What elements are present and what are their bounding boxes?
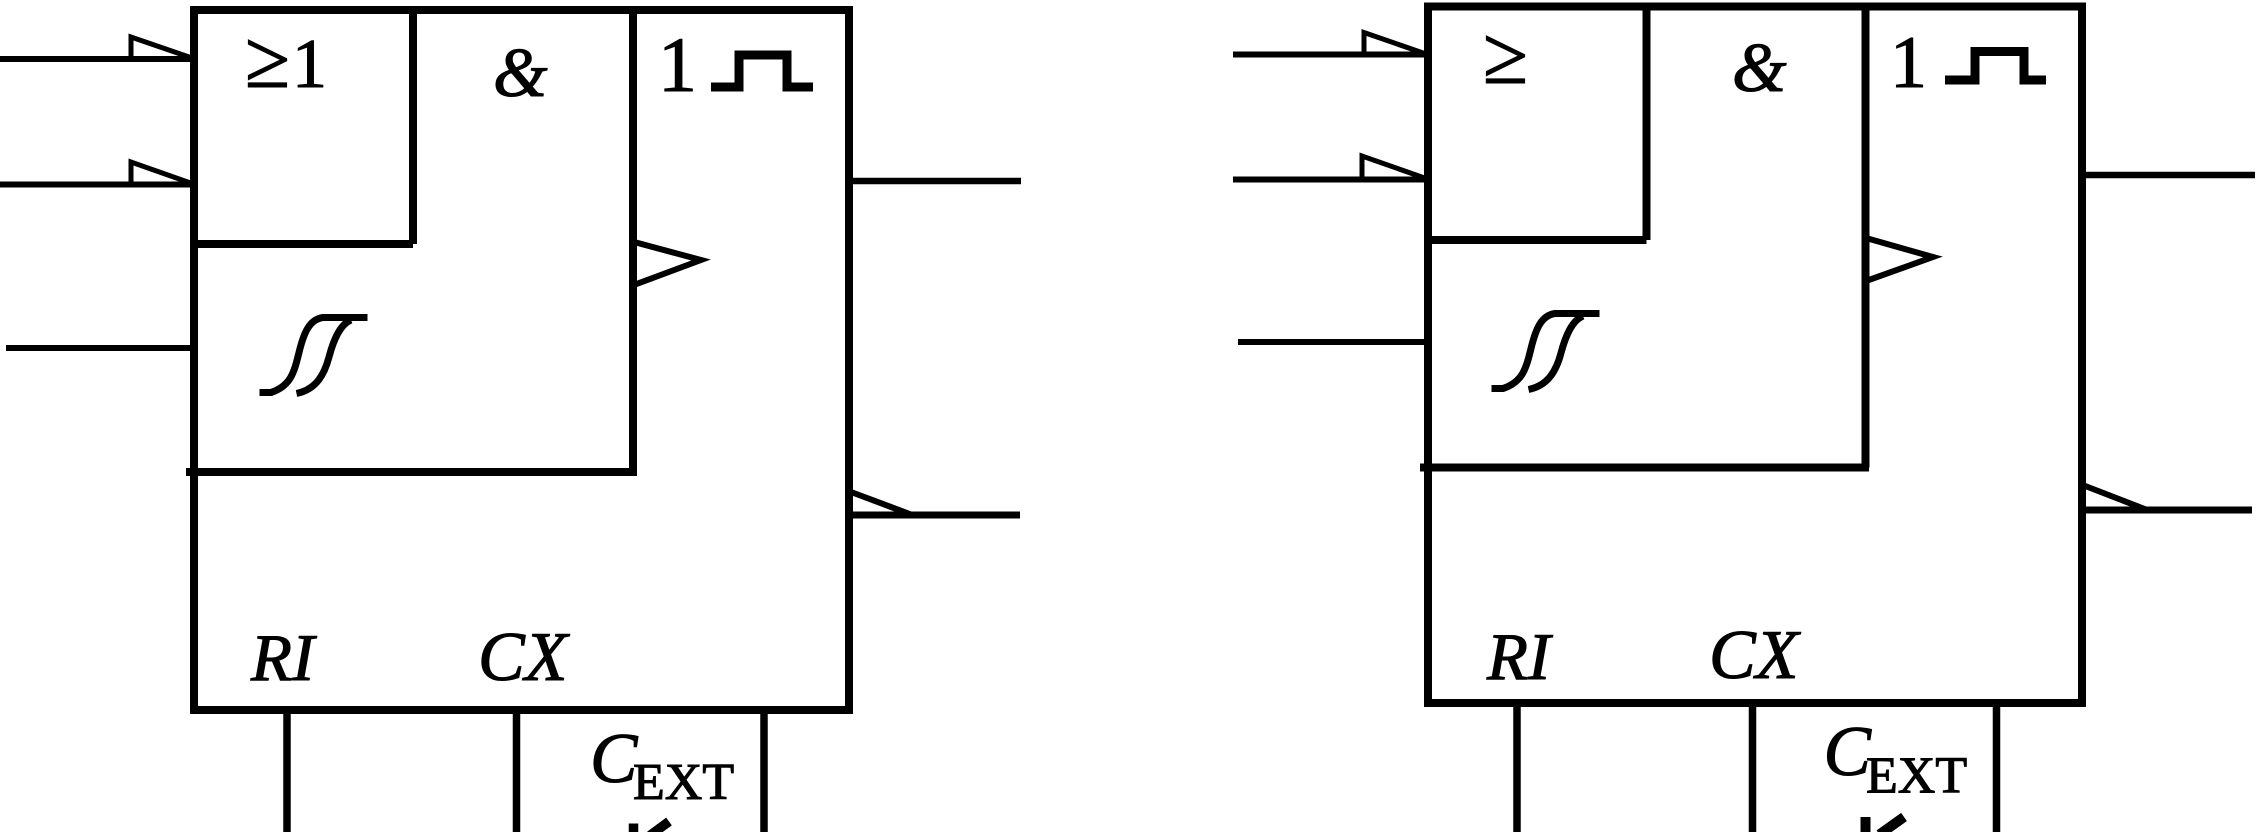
svg-text:1: 1 — [1890, 22, 1927, 104]
U1 output Q-bar polarity wedge — [851, 492, 911, 515]
U2 pin CEXT wire — [1993, 703, 2001, 832]
U1 pin RI wire — [283, 710, 291, 832]
svg-text:RI: RI — [1486, 620, 1553, 694]
svg-text:1: 1 — [658, 21, 697, 108]
svg-text:RI: RI — [250, 621, 317, 695]
U1 capacitor label K (clipped) — [634, 822, 670, 832]
U2 OR-section inner box — [1428, 7, 1647, 241]
U1 mid horizontal separator — [186, 468, 637, 476]
U2 edge-trigger chevron — [1866, 238, 1933, 281]
U1 pin CEXT wire — [760, 710, 768, 832]
U1 input A2 polarity wedge — [131, 162, 192, 184]
U1 input A1 polarity wedge — [131, 37, 192, 59]
svg-text:≥: ≥ — [245, 14, 290, 105]
U1 AND/mono section divider — [629, 10, 637, 472]
U1 OR-section inner box — [194, 10, 413, 244]
U2 input wire A2 — [1233, 177, 1428, 183]
U2 input wire A1 — [1233, 52, 1428, 58]
U1 input wire B — [6, 345, 194, 351]
svg-text:CX: CX — [1709, 617, 1802, 694]
U1 input wire A2 — [0, 182, 194, 188]
U2 pin RI wire — [1513, 703, 1521, 832]
U2 output Q-bar wire — [2082, 507, 2252, 514]
monostable U2 outline — [1428, 7, 2082, 704]
U1 edge-trigger chevron — [634, 242, 701, 285]
U1 input wire A1 — [0, 56, 194, 62]
U2 pin CX wire — [1749, 703, 1757, 832]
U2 output wire Q — [2082, 172, 2255, 179]
U2 label CEXT — [1824, 713, 1968, 805]
svg-text:EXT: EXT — [1866, 748, 1967, 805]
U2 input wire B — [1238, 339, 1428, 345]
U2 AND/mono section divider — [1862, 7, 1870, 468]
svg-text:C: C — [590, 720, 639, 798]
U1 output Q-bar wire — [849, 512, 1020, 519]
U1 pulse symbol — [711, 55, 813, 87]
U2 capacitor label K (clipped) — [1866, 817, 1905, 832]
U1 hysteresis symbol — [260, 318, 368, 394]
svg-text:&: & — [493, 35, 548, 112]
svg-text:EXT: EXT — [633, 754, 734, 811]
svg-text:&: & — [1732, 30, 1787, 107]
U1 pin CX wire — [513, 710, 521, 832]
monostable U1 outline — [194, 10, 849, 710]
U1 label CEXT — [590, 720, 734, 811]
U2 mid horizontal separator — [1420, 464, 1869, 472]
U2 pulse symbol — [1945, 52, 2046, 81]
svg-text:CX: CX — [478, 619, 571, 696]
svg-text:1: 1 — [292, 26, 327, 103]
U1 output wire Q — [849, 178, 1021, 185]
U2 output Q-bar polarity wedge — [2084, 486, 2146, 510]
U2 hysteresis symbol — [1492, 314, 1600, 390]
U2 input A2 polarity wedge — [1362, 156, 1426, 179]
svg-text:≥: ≥ — [1483, 10, 1528, 101]
U1 label >=1 — [245, 14, 327, 105]
U2 input A1 polarity wedge — [1364, 33, 1426, 55]
